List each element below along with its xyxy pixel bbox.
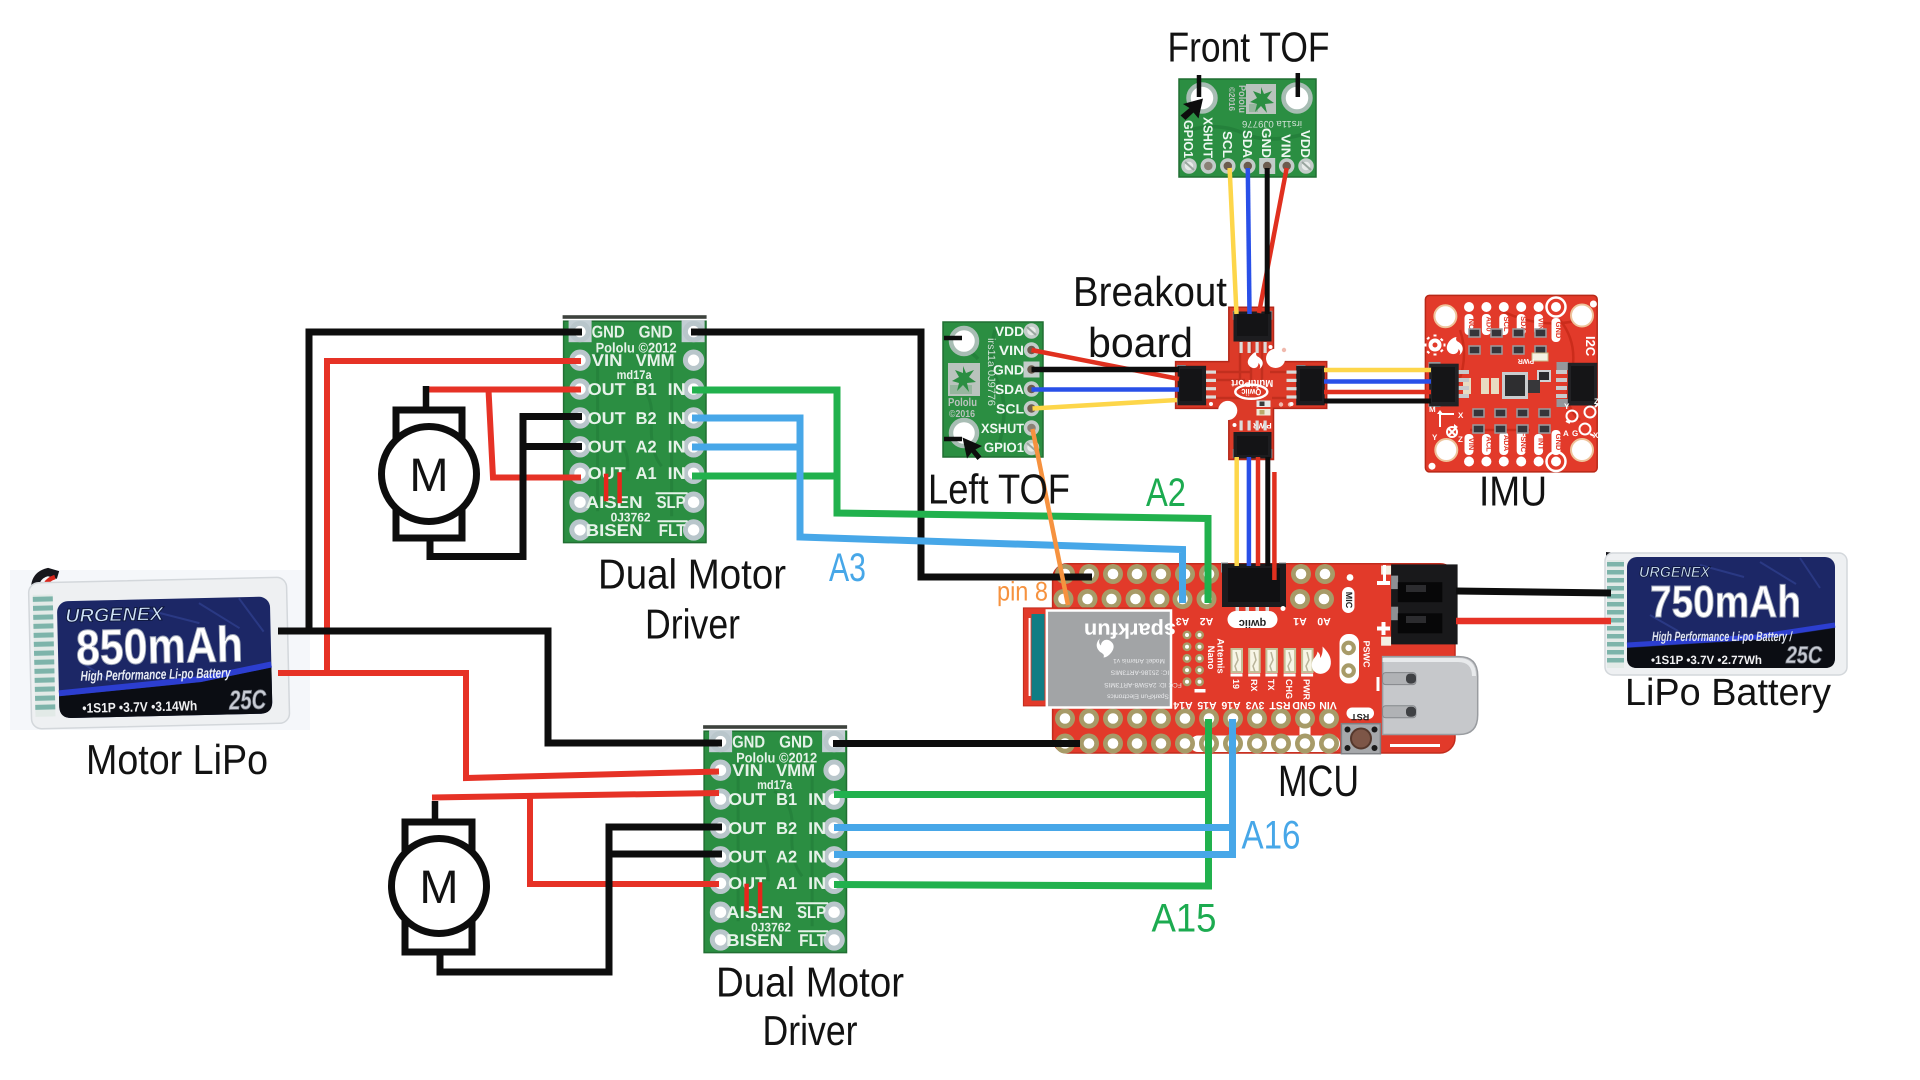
svg-text:pin 8: pin 8: [997, 577, 1048, 607]
svg-text:IMU: IMU: [1479, 468, 1547, 515]
svg-text:SparkFun Electronics: SparkFun Electronics: [1106, 693, 1169, 700]
svg-text:750mAh: 750mAh: [1650, 576, 1801, 627]
wire: U4 GND to MCU GND (bottom): [833, 740, 1080, 747]
wire: motor M2 to U4 OUT B2 / OUT A2 (black): [440, 827, 722, 972]
pads bottom rows: [1055, 709, 1339, 754]
svg-text:RX: RX: [1249, 679, 1259, 692]
svg-text:LiPo Battery: LiPo Battery: [1625, 672, 1831, 714]
svg-text:Front TOF: Front TOF: [1168, 24, 1330, 71]
svg-text:A15: A15: [1152, 897, 1217, 941]
svg-text:GPIO1: GPIO1: [1181, 120, 1196, 158]
svg-text:M: M: [1429, 405, 1436, 414]
wire: motor M1 branch to U2 OUT A1 (red): [489, 390, 582, 478]
wire: breakout to MCU qwiic (red): [1256, 457, 1261, 566]
svg-text:M: M: [419, 860, 458, 913]
USB-C connector J6: [1377, 657, 1478, 747]
svg-text:Dual Motor: Dual Motor: [716, 959, 904, 1006]
IMU U7 (SparkFun 9DoF IMU breakout): [1425, 295, 1600, 472]
svg-text:X: X: [1458, 411, 1464, 420]
qwiic connector J2 (bottom): [1233, 421, 1273, 459]
wire: Front TOF mount stubs (black): [1199, 73, 1298, 97]
svg-text:GND: GND: [993, 363, 1024, 378]
svg-text:A16: A16: [1242, 814, 1301, 858]
svg-text:VIN: VIN: [1467, 438, 1476, 451]
svg-text:Z: Z: [1458, 435, 1463, 444]
wire: Left TOF SCL to breakout (yellow): [1033, 400, 1178, 409]
wire: motor M1 to U2 OUT B2 / OUT A2 (black): [430, 417, 582, 557]
svg-text:IC: 25186-ART3MIS: IC: 25186-ART3MIS: [1110, 669, 1169, 676]
wire: U4 IN B1/IN A1 to MCU A15 (green): [834, 719, 1209, 886]
wire: battery B1 black (-) to U4 GND: [278, 631, 722, 743]
svg-text:©2016: ©2016: [1227, 87, 1237, 111]
svg-text:SDA: SDA: [995, 382, 1024, 397]
svg-text:A16: A16: [1221, 699, 1240, 711]
wire: U2 IN B2/IN A2 to MCU A3 (light blue): [692, 418, 1183, 603]
wire: breakout to MCU qwiic (yellow): [1234, 457, 1239, 566]
svg-text:sparkfun: sparkfun: [1084, 619, 1176, 642]
battery B2 LiPo Battery (URGENEX 750mAh): [1605, 552, 1847, 675]
through-hole grid: [1183, 631, 1206, 693]
wire: motor M1 to U2 OUT B1 (red): [424, 387, 581, 393]
svg-text:A3: A3: [829, 546, 866, 590]
svg-text:VDD: VDD: [1298, 130, 1313, 158]
svg-text:A2: A2: [1146, 471, 1186, 515]
svg-text:•1S1P •3.7V •3.14Wh: •1S1P •3.7V •3.14Wh: [82, 698, 197, 716]
MIC label: [1342, 587, 1355, 613]
svg-text:Model: Artemis v1: Model: Artemis v1: [1113, 657, 1165, 664]
svg-text:Driver: Driver: [763, 1007, 858, 1054]
wire: motor M1 top stub (black): [423, 386, 430, 413]
svg-text:FSNC: FSNC: [1519, 432, 1528, 453]
JST battery connector J7: [1377, 564, 1458, 645]
wire: breakout to IMU (red): [1324, 390, 1431, 395]
svg-text:M: M: [409, 448, 448, 501]
wire: Left TOF GND to breakout (black): [1032, 367, 1180, 373]
wire: red riser to U2 VIN: [327, 361, 581, 676]
svg-text:INT: INT: [1537, 438, 1546, 451]
status LEDs D1-D5: [1231, 649, 1314, 700]
svg-text:MCU: MCU: [1278, 757, 1359, 806]
TOF sensor U3 Front TOF (Pololu irs11a): [1179, 79, 1316, 177]
qwiic connector J4 (right): [1287, 365, 1325, 406]
pads top rows: [1054, 564, 1336, 609]
svg-text:GND: GND: [1292, 699, 1316, 711]
svg-text:Nano: Nano: [1205, 646, 1216, 670]
svg-text:High Performance Li-po Battery: High Performance Li-po Battery /: [1652, 629, 1793, 644]
svg-text:I2C: I2C: [1583, 336, 1598, 357]
RST button S1: [1341, 708, 1380, 754]
PSWC pads: [1340, 634, 1372, 684]
IMU qwiic connector left: [1429, 362, 1459, 407]
svg-text:Breakout: Breakout: [1073, 268, 1227, 315]
svg-text:PSWC: PSWC: [1362, 641, 1372, 669]
svg-text:VIN: VIN: [1319, 699, 1337, 711]
svg-text:MIC: MIC: [1344, 592, 1354, 609]
svg-text:Y: Y: [1432, 433, 1438, 442]
wire: breakout to MCU qwiic (blue): [1247, 457, 1252, 566]
dual motor driver U2 (Pololu md17a, top): [563, 315, 707, 542]
svg-text:A2: A2: [1200, 615, 1214, 627]
svg-text:Pololu: Pololu: [948, 397, 977, 409]
wire: JST to battery B2 black (-): [1456, 591, 1611, 593]
wire: Left TOF VIN to breakout (red): [1032, 350, 1180, 379]
dual motor driver U4 (Pololu md17a, bottom): [703, 725, 847, 952]
wire: motor M2 top stub (black): [432, 801, 439, 826]
pin name silkscreen: [1173, 615, 1337, 711]
svg-text:PWR: PWR: [1518, 357, 1534, 364]
wire: Left TOF SDA to breakout (blue): [1032, 387, 1180, 392]
svg-text:A3: A3: [1176, 615, 1190, 627]
motor M2: [392, 822, 487, 952]
battery B1 Motor LiPo (URGENEX 850mAh): [10, 570, 310, 730]
svg-text:qwiic: qwiic: [1239, 617, 1267, 629]
svg-text:VDD: VDD: [995, 324, 1024, 339]
svg-text:GPIO1: GPIO1: [984, 440, 1024, 455]
MCU U1 (SparkFun RedBoard Artemis Nano): [1023, 563, 1477, 754]
svg-text:XSHUT: XSHUT: [1200, 117, 1215, 158]
svg-text:SCL: SCL: [1220, 131, 1235, 158]
cursor arrow on Front TOF: [1181, 99, 1204, 121]
wire: breakout to IMU (yellow): [1324, 368, 1431, 373]
svg-text:PWR: PWR: [1302, 679, 1312, 700]
wire: breakout to IMU (black): [1324, 399, 1431, 404]
wire: breakout to MCU qwiic (black): [1265, 457, 1270, 566]
svg-text:Driver: Driver: [645, 601, 740, 648]
wire: Front TOF SDA to breakout (blue): [1248, 168, 1250, 314]
qwiic connector J5 on MCU: [1221, 563, 1286, 630]
svg-text:Left TOF: Left TOF: [928, 466, 1070, 513]
svg-text:RST: RST: [1351, 712, 1370, 722]
wire: motor M2 branch to U4 OUT A1 (red): [530, 795, 719, 884]
svg-text:25C: 25C: [228, 685, 267, 716]
svg-text:TX: TX: [1266, 679, 1276, 691]
svg-text:ACL: ACL: [1484, 436, 1493, 452]
svg-text:©2016: ©2016: [949, 409, 975, 420]
svg-text:RST: RST: [1269, 699, 1291, 711]
wire: Left TOF XSHUT to MCU pin 8 (orange): [1033, 429, 1069, 605]
wire: Front TOF SCL to breakout (yellow): [1230, 168, 1237, 314]
svg-text:Z: Z: [1594, 397, 1599, 406]
wire: U4 IN B2/IN A2 to MCU A16 (light blue): [834, 719, 1233, 855]
svg-text:25C: 25C: [1785, 642, 1822, 669]
svg-text:Dual Motor: Dual Motor: [598, 551, 786, 598]
svg-text:Y: Y: [1564, 402, 1570, 411]
svg-text:board: board: [1088, 319, 1193, 366]
wire: Front TOF GND to breakout (black): [1265, 168, 1270, 314]
svg-text:High Performance Li-po Battery: High Performance Li-po Battery: [80, 664, 231, 683]
wire: breakout to IMU (blue): [1324, 379, 1431, 384]
svg-text:CHG: CHG: [1284, 679, 1294, 699]
svg-text:A15: A15: [1197, 699, 1216, 711]
svg-text:G: G: [1572, 429, 1578, 438]
qwiic connector J3 (left): [1177, 365, 1216, 406]
svg-text:A: A: [1563, 429, 1569, 438]
svg-text:VIN: VIN: [999, 343, 1024, 358]
svg-text:GND: GND: [1259, 128, 1274, 158]
IMU qwiic connector right: [1557, 362, 1598, 407]
qwiic connector J1 (top): [1233, 311, 1273, 353]
wire: motor M2 to U4 OUT B1 (red): [432, 793, 719, 798]
wire: U2 IN B1/IN A1 to MCU A2 (green): [692, 390, 1208, 603]
svg-text:XSHUT: XSHUT: [981, 421, 1025, 436]
wire: red stub into MCU qwiic: [1272, 472, 1277, 580]
svg-text:ADA: ADA: [1502, 435, 1511, 452]
svg-text:19: 19: [1231, 679, 1241, 689]
wire: Left TOF mount stubs (black): [944, 338, 962, 439]
breakout board U6 (SparkFun Qwiic MultiPort): [1176, 307, 1327, 459]
svg-text:A0: A0: [1317, 615, 1331, 627]
svg-text:SCL: SCL: [996, 402, 1024, 417]
svg-text:GND: GND: [1554, 322, 1563, 339]
cursor arrow on Left TOF: [963, 438, 983, 461]
wire: Front TOF VIN to breakout (red): [1259, 168, 1287, 313]
TOF sensor U5 Left TOF (Pololu irs11a): [943, 322, 1043, 457]
svg-text:SDA: SDA: [1240, 130, 1255, 159]
svg-text:FCC ID: 2ASW8-ART3MIS: FCC ID: 2ASW8-ART3MIS: [1104, 681, 1182, 688]
svg-text:•1S1P •3.7V •2.77Wh: •1S1P •3.7V •2.77Wh: [1651, 653, 1762, 667]
svg-text:Qwiic: Qwiic: [1241, 387, 1261, 397]
wire: JST to battery B2 red (+): [1456, 618, 1611, 625]
svg-text:Motor LiPo: Motor LiPo: [86, 736, 268, 783]
svg-text:X: X: [1593, 431, 1599, 440]
wire: red drop to U4 VIN: [466, 670, 719, 778]
svg-text:MultiPort: MultiPort: [1231, 377, 1274, 388]
svg-text:GND: GND: [1554, 434, 1563, 451]
svg-text:A1: A1: [1293, 615, 1307, 627]
wire: black riser to U2 GND: [309, 332, 582, 634]
wire: battery B1 red (+) feed: [278, 670, 466, 676]
svg-text:VIN: VIN: [1279, 134, 1294, 158]
svg-text:3V3: 3V3: [1246, 699, 1265, 711]
artemis module: [1023, 608, 1181, 708]
svg-text:A14: A14: [1173, 699, 1192, 711]
svg-text:SCL: SCL: [1502, 317, 1511, 332]
wire: U2 GND to MCU GND (top): [691, 332, 1092, 577]
motor M1: [382, 410, 477, 538]
